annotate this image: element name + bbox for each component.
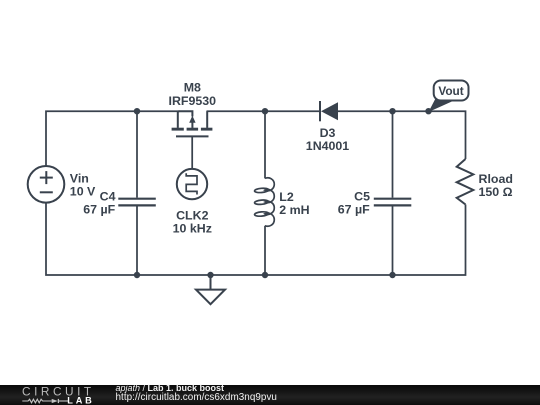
svg-text:D3: D3: [320, 126, 336, 140]
clock source CLK2: [177, 169, 207, 199]
CircuitLab logo: [0, 385, 100, 405]
svg-text:Vout: Vout: [438, 84, 463, 98]
label M8 IRF9530: [169, 81, 217, 108]
footer bar: [0, 385, 540, 405]
label C4 67 uF: [83, 190, 115, 217]
svg-text:67 µF: 67 µF: [338, 203, 370, 217]
label Vin 10 V: [70, 171, 96, 198]
svg-text:2 mH: 2 mH: [279, 203, 309, 217]
junction C5 bottom: [389, 272, 395, 278]
svg-text:IRF9530: IRF9530: [169, 94, 217, 108]
svg-text:Rload: Rload: [479, 172, 513, 186]
label L2 2 mH: [279, 190, 309, 217]
svg-text:10 V: 10 V: [70, 184, 96, 198]
junction L2 bottom: [262, 272, 268, 278]
wire D3 cathode to Vout node and down to Rload: [337, 111, 466, 159]
capacitor C4 bottom lead: [136, 206, 138, 275]
wire M8 gate to CLK2: [191, 136, 193, 169]
junction ground tap: [207, 272, 213, 278]
capacitor C5 bottom lead: [392, 206, 394, 275]
svg-text:67 µF: 67 µF: [83, 203, 115, 217]
junction C5 top: [389, 108, 395, 114]
svg-text:Vin: Vin: [70, 171, 89, 185]
footer title text: [116, 383, 225, 393]
inductor L2 coil: [254, 178, 274, 226]
label D3 1N4001: [306, 126, 350, 153]
wire left rail bottom and bottom rail to Rload: [46, 203, 466, 275]
node Vout flag: [429, 81, 469, 113]
capacitor C5 plates: [374, 199, 412, 206]
wire M8 drain to D3 anode: [207, 110, 321, 112]
svg-text:L2: L2: [279, 190, 294, 204]
svg-text:M8: M8: [184, 81, 201, 95]
ground: [196, 275, 225, 304]
label CLK2 10 kHz: [173, 208, 212, 235]
svg-text:C5: C5: [354, 190, 370, 204]
capacitor C4 plates: [118, 199, 156, 206]
svg-text:LAB: LAB: [67, 396, 94, 405]
junction C4 top: [134, 108, 140, 114]
junction Vout tap: [425, 108, 431, 114]
svg-text:CLK2: CLK2: [176, 208, 208, 222]
voltage source Vin: [28, 166, 65, 203]
junction L2 top: [262, 108, 268, 114]
diode D3: [320, 101, 338, 121]
inductor L2 top lead: [264, 111, 266, 178]
svg-text:10 kHz: 10 kHz: [173, 221, 212, 235]
label Rload 150 ohm: [479, 172, 513, 199]
svg-text:C4: C4: [100, 190, 116, 204]
inductor L2 bottom lead: [264, 226, 266, 275]
label C5 67 uF: [338, 190, 370, 217]
capacitor C5 top lead: [392, 111, 394, 197]
svg-text:1N4001: 1N4001: [306, 139, 350, 153]
svg-text:150 Ω: 150 Ω: [479, 185, 513, 199]
wire left rail top: [46, 111, 180, 166]
junction C4 bottom: [134, 272, 140, 278]
capacitor C4 top lead: [136, 111, 138, 197]
resistor Rload: [457, 159, 474, 205]
transistor M8 (PMOS): [176, 111, 209, 136]
